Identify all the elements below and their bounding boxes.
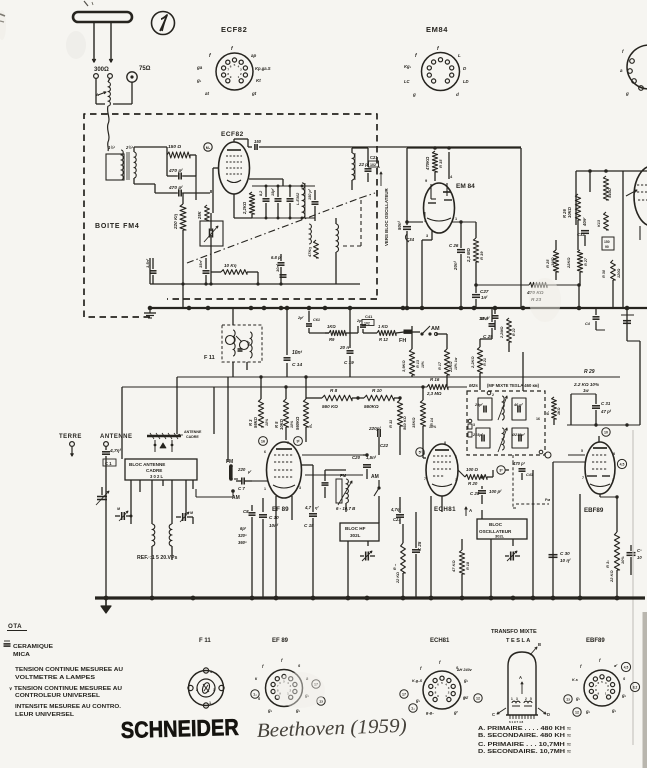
scan edge right bbox=[643, 612, 647, 768]
resistor 150 ohm bbox=[167, 152, 190, 158]
arrow vers bloc bbox=[380, 172, 382, 186]
wire bbox=[286, 308, 288, 355]
smudge topleft bbox=[66, 31, 86, 59]
capacitor 6.8pF bbox=[278, 262, 285, 264]
svg-text:2,3 MΩ: 2,3 MΩ bbox=[426, 391, 442, 396]
trimmer M2 bbox=[182, 513, 184, 521]
svg-text:10nᶠ: 10nᶠ bbox=[275, 263, 280, 272]
MF2 terminals bbox=[487, 391, 491, 395]
wire bbox=[153, 257, 183, 259]
svg-text:R9: R9 bbox=[329, 337, 335, 342]
svg-text:gt: gt bbox=[251, 91, 257, 96]
trimmer osc bbox=[510, 552, 512, 561]
svg-text:50nᶠ: 50nᶠ bbox=[397, 220, 402, 230]
circled 14 ech bbox=[409, 704, 417, 712]
switch FM contact bbox=[404, 330, 412, 333]
MF2 cell 1 bbox=[478, 398, 492, 420]
svg-text:Kp.ga.S: Kp.ga.S bbox=[255, 66, 271, 71]
svg-text:R 10: R 10 bbox=[372, 388, 382, 393]
resistor R8 560K bbox=[322, 395, 352, 401]
svg-text:10 Kη: 10 Kη bbox=[224, 263, 237, 268]
circled 17 ef bbox=[312, 680, 320, 688]
svg-text:EBF89: EBF89 bbox=[584, 507, 604, 514]
svg-text:C23: C23 bbox=[393, 517, 401, 522]
svg-text:3 0 2 L: 3 0 2 L bbox=[150, 474, 163, 479]
svg-text:150 pᶠ: 150 pᶠ bbox=[308, 188, 312, 200]
wire bbox=[130, 480, 132, 513]
svg-text:360ᵛ: 360ᵛ bbox=[238, 540, 247, 545]
svg-text:A: A bbox=[377, 164, 380, 169]
svg-text:C: C bbox=[492, 712, 495, 717]
svg-text:R 14: R 14 bbox=[430, 417, 434, 426]
wire bbox=[579, 377, 581, 394]
svg-text:22 KΩ: 22 KΩ bbox=[609, 570, 614, 583]
svg-text:20nᶠ: 20nᶠ bbox=[453, 260, 458, 271]
svg-text:20pᶠ: 20pᶠ bbox=[474, 403, 484, 407]
svg-text:3: 3 bbox=[299, 486, 301, 490]
wire plate ECF82 bbox=[233, 139, 235, 142]
svg-text:7: 7 bbox=[582, 476, 584, 480]
wire ebf top bbox=[567, 424, 640, 426]
dashed box F11 filter bbox=[222, 325, 262, 362]
wire bbox=[335, 218, 337, 224]
svg-text:C 25: C 25 bbox=[417, 541, 422, 551]
box BLOC ANTENNE CADRE bbox=[125, 459, 197, 480]
svg-text:L.E302: L.E302 bbox=[296, 192, 300, 205]
svg-text:ΔH 240v: ΔH 240v bbox=[456, 668, 473, 672]
svg-text:g: g bbox=[412, 92, 416, 97]
resistor 220K bbox=[180, 204, 186, 230]
tube EBF89 bbox=[585, 442, 615, 494]
wire bbox=[213, 387, 215, 459]
svg-text:FM: FM bbox=[340, 473, 347, 478]
svg-text:2,2 MΩ: 2,2 MΩ bbox=[466, 248, 471, 263]
transfo arrow C bbox=[497, 708, 506, 714]
svg-text:BLOC: BLOC bbox=[489, 522, 503, 527]
svg-text:1½ᵗ: 1½ᵗ bbox=[108, 145, 116, 150]
svg-text:1nᶠ: 1nᶠ bbox=[481, 295, 488, 300]
svg-text:2,2MΩ: 2,2MΩ bbox=[500, 327, 504, 339]
wire feeder to FM box bbox=[108, 106, 109, 151]
svg-text:Kt: Kt bbox=[256, 78, 261, 83]
wire bbox=[172, 516, 176, 518]
coil osc out bbox=[352, 153, 355, 180]
svg-text:1: 1 bbox=[455, 217, 457, 221]
capacitor 8.2pF bbox=[263, 198, 270, 200]
capacitor C18 4.7nF bbox=[312, 505, 314, 512]
transfo arrow A bbox=[521, 682, 523, 694]
wire bbox=[95, 78, 97, 104]
svg-text:16: 16 bbox=[536, 417, 540, 421]
svg-text:R 13: R 13 bbox=[416, 359, 420, 368]
wire bbox=[182, 193, 184, 204]
svg-text:g₁: g₁ bbox=[295, 708, 301, 713]
capacitor C22 220pF bbox=[363, 454, 379, 456]
MF2 cell 3 bbox=[476, 428, 490, 448]
svg-text:C22: C22 bbox=[380, 443, 389, 448]
resistor R col 22K bbox=[401, 543, 406, 573]
circled 82 ebf bbox=[630, 682, 639, 691]
circled 9t bbox=[294, 437, 303, 446]
svg-text:16: 16 bbox=[261, 440, 265, 444]
svg-text:3: 3 bbox=[612, 478, 614, 482]
svg-text:470 pᶠ: 470 pᶠ bbox=[168, 185, 183, 191]
svg-text:R 27: R 27 bbox=[584, 257, 588, 266]
svg-text:4,5: 4,5 bbox=[624, 666, 629, 670]
svg-text:3: 3 bbox=[426, 234, 428, 238]
smudge mid bbox=[529, 278, 561, 322]
svg-text:C8: C8 bbox=[243, 509, 249, 514]
B+ rail bbox=[150, 307, 647, 309]
svg-text:8: 8 bbox=[444, 441, 446, 445]
svg-text:REF.·:1 5 20.VPѕ: REF.·:1 5 20.VPѕ bbox=[137, 555, 177, 561]
svg-text:3: 3 bbox=[213, 688, 215, 692]
resistor R5 10K bbox=[283, 399, 288, 427]
tube ECF82 bbox=[219, 142, 250, 194]
svg-text:10nᶠ: 10nᶠ bbox=[269, 523, 279, 528]
wire bbox=[345, 470, 347, 479]
MF2 tuning arrows bbox=[498, 396, 507, 420]
svg-text:2: 2 bbox=[196, 688, 198, 692]
resistor R31 22K bbox=[614, 532, 619, 570]
box 150-90 bbox=[602, 237, 614, 250]
wire bbox=[465, 516, 467, 519]
resistor R26 10K bbox=[575, 194, 580, 220]
svg-text:1₄: 1₄ bbox=[411, 707, 415, 711]
svg-text:10%: 10% bbox=[265, 418, 269, 426]
antenna terminal 300 ohm A bbox=[94, 74, 99, 79]
svg-text:TRANSFO MIXTE: TRANSFO MIXTE bbox=[491, 629, 537, 635]
svg-text:ECF82: ECF82 bbox=[221, 25, 247, 34]
svg-text:SCHNEIDER: SCHNEIDER bbox=[120, 714, 239, 743]
svg-text:R 29: R 29 bbox=[584, 369, 595, 375]
svg-text:(MF MIXTE TESLA 460 км): (MF MIXTE TESLA 460 км) bbox=[487, 383, 540, 388]
wire bbox=[521, 473, 523, 480]
svg-text:g: g bbox=[625, 91, 629, 96]
svg-text:R 3₁: R 3₁ bbox=[605, 560, 610, 568]
svg-text:A. PRIMAIRE . . . . 480 KH ≈: A. PRIMAIRE . . . . 480 KH ≈ bbox=[478, 726, 571, 732]
wire bbox=[423, 461, 426, 463]
coil 6-10.7B bbox=[336, 479, 342, 503]
resistor R21 2.2K bbox=[477, 347, 482, 373]
wire right top bbox=[576, 170, 647, 172]
svg-text:C 26: C 26 bbox=[449, 243, 459, 248]
svg-text:B. SECONDAIRE. 480 KH ≈: B. SECONDAIRE. 480 KH ≈ bbox=[478, 733, 571, 739]
wire bbox=[598, 425, 600, 436]
wire bbox=[599, 494, 601, 502]
svg-text:220pᶠ: 220pᶠ bbox=[368, 426, 381, 431]
svg-text:CADRE: CADRE bbox=[186, 435, 199, 439]
svg-text:g₁: g₁ bbox=[415, 698, 421, 703]
svg-text:R₂: R₂ bbox=[546, 410, 550, 415]
wire bbox=[579, 494, 581, 598]
svg-text:VOLTMETRE A LAMPES: VOLTMETRE A LAMPES bbox=[15, 675, 96, 681]
svg-text:g₂: g₂ bbox=[585, 709, 591, 714]
svg-text:300Ω: 300Ω bbox=[94, 67, 109, 73]
wire bbox=[584, 220, 586, 229]
svg-text:C20: C20 bbox=[352, 455, 361, 460]
svg-text:2: 2 bbox=[299, 456, 301, 460]
svg-text:CERAMIQUE: CERAMIQUE bbox=[13, 644, 54, 650]
svg-text:LEUR UNIVERSEL: LEUR UNIVERSEL bbox=[15, 712, 75, 718]
svg-text:220 Kη: 220 Kη bbox=[173, 214, 178, 230]
svg-text:1KΩ: 1KΩ bbox=[327, 324, 336, 329]
wire EM84 left grid bbox=[415, 209, 424, 211]
variable capacitor tuning bbox=[97, 496, 107, 498]
svg-text:6: 6 bbox=[455, 455, 457, 459]
coil LE302 bbox=[302, 183, 305, 218]
wire bbox=[505, 469, 513, 471]
wire bbox=[589, 171, 591, 192]
svg-text:TERRE: TERRE bbox=[59, 434, 82, 440]
svg-text:75Ω: 75Ω bbox=[139, 66, 151, 72]
svg-text:2,2KΩ: 2,2KΩ bbox=[242, 201, 247, 215]
socket EBF89 bottom bbox=[584, 670, 620, 706]
svg-text:22KΩ: 22KΩ bbox=[448, 361, 453, 373]
circled 45 ebf2 bbox=[621, 662, 630, 671]
svg-text:10nᶠ: 10nᶠ bbox=[292, 350, 303, 356]
resistor K13 bbox=[604, 212, 609, 230]
svg-text:M₂: M₂ bbox=[206, 146, 211, 150]
wire bbox=[133, 147, 135, 152]
svg-text:15nᶠ: 15nᶠ bbox=[198, 259, 203, 268]
svg-text:6 1 9 7 4 8: 6 1 9 7 4 8 bbox=[509, 720, 524, 724]
wire bbox=[102, 486, 106, 488]
svg-text:R 15: R 15 bbox=[438, 159, 443, 168]
svg-text:15KΩ: 15KΩ bbox=[411, 417, 416, 428]
svg-text:12: 12 bbox=[476, 697, 480, 701]
capacitor C1 4.7nF bbox=[105, 446, 107, 450]
svg-text:2½ᵗ: 2½ᵗ bbox=[125, 145, 134, 150]
svg-text:ap: ap bbox=[251, 53, 257, 58]
wire bbox=[622, 171, 624, 308]
resistor R9 1K bbox=[329, 330, 346, 335]
wire ech cathode bbox=[441, 496, 443, 530]
svg-text:46 pᶠ: 46 pᶠ bbox=[513, 403, 524, 407]
svg-text:ECH81: ECH81 bbox=[434, 506, 456, 513]
wire bbox=[166, 147, 168, 155]
capacitor C26 20nF bbox=[457, 249, 465, 251]
svg-text:C 30: C 30 bbox=[560, 551, 570, 556]
svg-text:R 19: R 19 bbox=[479, 251, 484, 260]
wire bbox=[553, 391, 555, 397]
circled 16 bbox=[259, 437, 268, 446]
svg-text:g₃: g₃ bbox=[611, 708, 617, 713]
wire bbox=[555, 272, 557, 285]
tube ECH81 bbox=[426, 444, 458, 496]
svg-text:C 28: C 28 bbox=[470, 491, 480, 496]
svg-text:BLOC HF: BLOC HF bbox=[345, 526, 366, 531]
svg-text:302L: 302L bbox=[495, 534, 505, 539]
svg-text:R 16: R 16 bbox=[430, 377, 440, 382]
wire bbox=[491, 308, 493, 322]
svg-text:g₂: g₂ bbox=[621, 693, 627, 698]
svg-text:Ø215pᶠ: Ø215pᶠ bbox=[512, 433, 526, 437]
svg-text:VERS BLOC OSCILLATEUR: VERS BLOC OSCILLATEUR bbox=[384, 187, 389, 246]
dash-dot tuning line bbox=[187, 198, 360, 263]
wire bbox=[399, 497, 401, 507]
svg-text:102: 102 bbox=[364, 322, 370, 326]
wire bbox=[479, 390, 481, 391]
coil cadre 2 bbox=[169, 524, 172, 546]
svg-text:C21: C21 bbox=[370, 155, 378, 160]
resistor R25 1M bbox=[553, 250, 558, 272]
svg-text:1з: 1з bbox=[566, 698, 570, 702]
ground TERRE bbox=[71, 447, 73, 456]
capacitor C31 47pF bbox=[592, 405, 600, 407]
wire bbox=[227, 462, 229, 464]
wire long top bbox=[259, 146, 521, 148]
meter circle M2 bbox=[204, 143, 212, 151]
smudge left edge bbox=[0, 10, 6, 40]
svg-text:LD: LD bbox=[463, 79, 469, 84]
svg-text:560KΩ: 560KΩ bbox=[364, 404, 379, 409]
svg-text:R 30: R 30 bbox=[602, 269, 606, 278]
resistor R15 470K bbox=[432, 151, 437, 172]
wire long B bbox=[122, 386, 427, 388]
coil cadre 1 bbox=[152, 524, 155, 546]
capacitor C10 bbox=[262, 498, 264, 512]
svg-text:100 pᶠ: 100 pᶠ bbox=[489, 489, 502, 494]
svg-text:EM 84: EM 84 bbox=[456, 183, 475, 190]
wire EM84 pin1 bbox=[452, 221, 476, 223]
capacitor C32 bbox=[581, 230, 589, 232]
resistor R3 56K bbox=[258, 399, 263, 427]
capacitor right low bbox=[627, 552, 636, 554]
dashed vertical link bbox=[360, 200, 362, 246]
wire bbox=[108, 78, 110, 82]
wire bbox=[351, 148, 353, 153]
svg-text:M2ѕ: M2ѕ bbox=[469, 383, 478, 388]
resistor 540 ohm bbox=[603, 176, 608, 200]
svg-text:+7: +7 bbox=[464, 696, 468, 700]
coil osc small bbox=[309, 224, 311, 244]
resistor R14 15K bbox=[420, 400, 425, 426]
svg-text:90: 90 bbox=[605, 245, 609, 249]
MF2 cell 4 bbox=[512, 428, 528, 448]
box BLOC OSCILLATEUR bbox=[477, 519, 527, 539]
trimmer hf bbox=[365, 552, 367, 561]
dashed box MF2 bbox=[467, 391, 545, 455]
antenna symbol bbox=[73, 12, 132, 22]
capacitor C19 20nF bbox=[347, 350, 354, 352]
F11 coils bbox=[226, 336, 235, 345]
capacitor below rail x596 bbox=[595, 308, 597, 315]
svg-text:CADRE: CADRE bbox=[146, 468, 162, 473]
svg-text:102: 102 bbox=[370, 163, 376, 167]
resistor R10 560K bbox=[364, 395, 394, 401]
svg-text:K.g₃S: K.g₃S bbox=[412, 679, 423, 683]
svg-text:g₂: g₂ bbox=[463, 678, 469, 683]
wire bbox=[213, 167, 219, 169]
resistor right of MF2 bbox=[552, 397, 557, 419]
wire bbox=[246, 362, 248, 370]
circled 13 ebf bbox=[564, 695, 572, 703]
svg-text:470 pᶠ: 470 pᶠ bbox=[512, 461, 526, 466]
svg-text:TENSION CONTINUE MESUREE AU: TENSION CONTINUE MESUREE AU bbox=[14, 686, 122, 692]
tube EBF89 electrodes bbox=[592, 454, 608, 456]
wire bbox=[433, 146, 437, 150]
wire long A bbox=[177, 376, 620, 378]
circled 17 ech bbox=[400, 690, 408, 698]
svg-text:10%: 10% bbox=[421, 361, 425, 368]
circled 12 ech bbox=[474, 694, 482, 702]
svg-text:150: 150 bbox=[604, 240, 610, 244]
edge mark b bbox=[0, 21, 4, 22]
svg-text:OTA: OTA bbox=[8, 623, 22, 630]
svg-text:C 7: C 7 bbox=[238, 486, 245, 491]
svg-text:A: A bbox=[96, 92, 99, 97]
svg-text:1: 1 bbox=[264, 487, 266, 491]
wire bbox=[446, 334, 448, 349]
svg-text:R 12: R 12 bbox=[379, 337, 389, 342]
wire bbox=[319, 308, 321, 333]
circled 13 ef bbox=[317, 697, 325, 705]
wire bbox=[275, 496, 277, 598]
wire bbox=[252, 480, 268, 482]
svg-text:4,7: 4,7 bbox=[304, 505, 312, 510]
svg-text:g₂g₄: g₂g₄ bbox=[425, 711, 434, 715]
svg-text:R 11: R 11 bbox=[388, 419, 393, 428]
svg-text:215pᶠ: 215pᶠ bbox=[472, 433, 484, 437]
capacitor 470pF a bbox=[178, 173, 180, 180]
svg-text:10ₙᶠ: 10ₙᶠ bbox=[480, 316, 489, 321]
dashed box BOITE FM4 bbox=[84, 114, 377, 317]
transfo arrow D bbox=[538, 708, 546, 714]
svg-text:8,2: 8,2 bbox=[259, 190, 263, 196]
svg-text:120Ω: 120Ω bbox=[617, 269, 621, 278]
socket ECH81 bottom bbox=[423, 671, 461, 709]
svg-text:10%: 10% bbox=[290, 420, 294, 428]
svg-text:AM: AM bbox=[371, 474, 379, 480]
wire bbox=[571, 393, 596, 395]
wire bbox=[349, 356, 351, 377]
wire grid bbox=[233, 194, 235, 204]
switch AM ef89 bbox=[231, 489, 235, 493]
capacitor C27 1nF bbox=[472, 294, 480, 296]
ferrite rod antenna bbox=[147, 435, 181, 438]
transfo windings bbox=[512, 701, 520, 703]
wire bbox=[239, 308, 241, 325]
svg-text:EF 89: EF 89 bbox=[272, 506, 289, 513]
svg-text:ANTENNE: ANTENNE bbox=[100, 434, 133, 440]
svg-text:EM84: EM84 bbox=[426, 25, 448, 34]
smudge bottom bbox=[275, 672, 325, 708]
svg-text:470 pᶠ: 470 pᶠ bbox=[168, 168, 183, 174]
svg-text:540Ω: 540Ω bbox=[607, 187, 612, 198]
svg-text:C 10: C 10 bbox=[269, 515, 279, 520]
ink fleck top bbox=[84, 1, 88, 6]
wire bbox=[552, 470, 554, 598]
svg-text:1 KΩ: 1 KΩ bbox=[378, 324, 389, 329]
wire bbox=[234, 203, 252, 205]
resistor 2.2K bbox=[249, 192, 254, 214]
svg-text:D: D bbox=[547, 712, 550, 717]
circled 1 mark bbox=[152, 12, 175, 35]
svg-text:4,7ηᶠ: 4,7ηᶠ bbox=[390, 507, 401, 512]
switch AM bbox=[420, 332, 423, 335]
svg-text:560KΩ: 560KΩ bbox=[295, 416, 300, 430]
capacitor 15nF bbox=[203, 270, 210, 272]
svg-text:TENSION CONTINUE MESUREE AU: TENSION CONTINUE MESUREE AU bbox=[15, 667, 123, 673]
tube socket ECF82 top bbox=[216, 53, 253, 90]
svg-text:10KΩ: 10KΩ bbox=[279, 418, 284, 430]
svg-text:3: 3 bbox=[516, 697, 518, 701]
svg-text:R 8: R 8 bbox=[330, 388, 338, 393]
svg-text:R₄: R₄ bbox=[309, 423, 313, 428]
svg-text:5: 5 bbox=[581, 449, 583, 453]
tube socket EM84 top bbox=[422, 53, 460, 91]
